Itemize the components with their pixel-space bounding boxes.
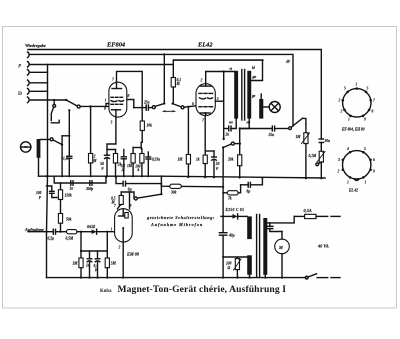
wire lower center vertical (222, 148, 224, 188)
svg-text:2n: 2n (225, 133, 230, 137)
potentiometer 100 ohm (226, 259, 241, 278)
node diode junction (80, 231, 82, 233)
tube EF804 cathode (112, 109, 121, 117)
svg-text:gn: gn (252, 75, 257, 79)
head coil (37, 139, 41, 158)
svg-text:9: 9 (373, 170, 375, 174)
contact arc 3 (28, 70, 30, 76)
resistor 100k (135, 149, 144, 176)
wire link to 1,5n branch (62, 135, 69, 137)
wire heater loop and feed (174, 60, 263, 80)
node grid-2M junction (90, 105, 92, 107)
svg-text:6: 6 (192, 102, 194, 106)
svg-text:8: 8 (128, 94, 130, 98)
capacitor 100p (36, 186, 57, 199)
wire T2 tap (223, 256, 247, 258)
wire tone line (240, 128, 272, 130)
resistor 150k (58, 183, 71, 214)
svg-text:4: 4 (346, 147, 349, 151)
svg-text:9: 9 (104, 107, 106, 111)
svg-text:=0,33n: =0,33n (150, 157, 160, 161)
svg-text:1k: 1k (196, 158, 200, 162)
wire cathode jog (107, 117, 116, 149)
svg-text:1: 1 (365, 181, 367, 185)
capacitor C 25n (143, 100, 152, 110)
wire V1 left vertical (47, 65, 48, 278)
diode 0A5 (87, 225, 115, 234)
svg-text:30k: 30k (170, 190, 177, 194)
svg-text:300p: 300p (85, 187, 93, 191)
svg-text:1M: 1M (73, 262, 79, 266)
wire speaker top (260, 94, 262, 99)
svg-text:2: 2 (337, 170, 340, 174)
wire T2 primary bottom (249, 275, 251, 278)
svg-text:7: 7 (202, 119, 204, 123)
resistor 10k (140, 108, 152, 149)
resistor 1M EL42 grid (178, 106, 191, 177)
node rect node (222, 215, 224, 217)
svg-text:7: 7 (112, 78, 114, 82)
svg-text:EF804: EF804 (106, 42, 125, 49)
resistor 50k (58, 214, 71, 232)
wire EM80 pin9 lead (129, 192, 131, 209)
svg-text:Ω: Ω (228, 266, 231, 270)
svg-text:7: 7 (373, 99, 375, 103)
svg-text:5: 5 (367, 87, 369, 91)
capacitor 50µ EL42 (205, 151, 219, 177)
wire ground bus (middle) (39, 176, 326, 178)
capacitor C 1,5n (61, 109, 72, 176)
svg-text:8µ: 8µ (247, 189, 251, 193)
svg-text:150k: 150k (65, 194, 72, 198)
wire grid EL42 line (184, 106, 196, 107)
resistor 5M (105, 251, 116, 278)
node screen node (239, 127, 241, 129)
node 223-bus (222, 186, 224, 188)
svg-text:EL 42: EL 42 (348, 189, 358, 193)
svg-text:3: 3 (337, 158, 340, 162)
svg-text:µ: µ (94, 268, 97, 272)
fuse 0,5A (294, 208, 340, 219)
svg-text:40µ: 40µ (228, 234, 235, 238)
svg-text:1n: 1n (86, 264, 90, 268)
tube EL42 cathode (201, 112, 211, 116)
svg-text:1M: 1M (296, 135, 302, 139)
wire pin9 stub (106, 104, 109, 107)
svg-text:2: 2 (338, 99, 341, 103)
wire coil top to switch (40, 138, 50, 140)
capacitor 300p series (85, 181, 93, 191)
transformer T1 output primary (234, 71, 238, 119)
svg-text:1M: 1M (127, 164, 133, 168)
resistor 0,1M screen (171, 60, 181, 104)
diode E250C85 (221, 214, 247, 219)
node bus dots EF row (45, 175, 149, 177)
capacitor 0,1µ lower (94, 251, 100, 278)
resistor 20k screen (227, 129, 242, 178)
wire head switch down (61, 136, 63, 176)
transformer T2 secondary (263, 218, 267, 275)
capacitor 6µ series (123, 181, 161, 191)
wire 7k drop (222, 187, 224, 193)
capacitor 50µ cathode (100, 150, 109, 177)
node bottom bus dots (80, 277, 124, 279)
svg-text:1: 1 (356, 83, 358, 87)
svg-text:7k: 7k (228, 196, 232, 200)
svg-text:5: 5 (344, 87, 346, 91)
capacitor 1n lower (86, 251, 92, 278)
wire 30k line (161, 184, 223, 187)
svg-text:sw: sw (246, 121, 251, 125)
wire coil bottom to bus (38, 158, 40, 176)
tube EM80 target electrode (119, 209, 129, 218)
tube EF804 envelope (109, 82, 127, 117)
resistor 1M lower (73, 258, 84, 278)
wire bottom bus (47, 277, 306, 279)
capacitor 2n (224, 126, 231, 136)
wire screen drop (215, 100, 223, 102)
switch S7 tone (289, 118, 303, 129)
transformer T2 primary upper (247, 216, 252, 239)
svg-text:p: p (18, 63, 22, 69)
svg-text:4V: 4V (285, 60, 291, 64)
svg-text:20k: 20k (227, 158, 234, 162)
node bus dots EL row (187, 176, 241, 179)
svg-text:5: 5 (364, 147, 366, 151)
switch S9 record/play (222, 142, 241, 149)
contact arc 4 (28, 80, 30, 86)
wire second bus left (54, 176, 106, 183)
svg-text:D: D (18, 91, 22, 97)
svg-text:25n: 25n (268, 133, 275, 137)
contact arc 1 (28, 52, 30, 58)
switch S1 input selector (65, 99, 80, 108)
svg-text:0A5E: 0A5E (87, 225, 96, 229)
capacitor 8µ series (241, 178, 263, 194)
wire EM80 pin7 lead (118, 206, 120, 209)
svg-text:µ: µ (215, 166, 218, 170)
tube EF804 grids (111, 97, 124, 104)
resistor 2k cathode (113, 150, 121, 177)
wire EM80 top link (121, 192, 134, 199)
tube EF804 anode (112, 82, 122, 88)
svg-text:2: 2 (200, 79, 203, 83)
contact arc 2 (28, 62, 30, 68)
svg-text:1: 1 (348, 118, 350, 122)
svg-text:Magnet-Ton-Gerät chérie, Ausfü: Magnet-Ton-Gerät chérie, Ausführung I (118, 284, 287, 295)
wire motor loop (265, 216, 294, 223)
svg-text:1: 1 (105, 99, 107, 103)
tube EM80 envelope (115, 209, 133, 242)
tube EM80 cathode (122, 227, 124, 242)
wire row link (133, 147, 141, 149)
wire rail3 heater (30, 64, 173, 66)
svg-text:ge: ge (251, 94, 256, 98)
capacitor 0,33n (146, 152, 160, 176)
svg-text:25n: 25n (143, 100, 150, 104)
wire from arc5 to V1 (31, 90, 48, 92)
capacitor 30n (319, 139, 330, 143)
svg-text:1: 1 (347, 181, 349, 185)
wire rail2 (30, 54, 293, 126)
svg-text:ws: ws (229, 121, 233, 125)
node bus-161 (160, 175, 162, 177)
svg-text:M: M (278, 245, 283, 250)
potentiometer 0,1M (309, 146, 326, 178)
svg-text:EL42: EL42 (197, 42, 213, 49)
wire lower link (81, 250, 107, 252)
capacitor 25n tone (268, 126, 289, 137)
socket EF804/EH80 (338, 83, 376, 132)
transformer T1 secondary (247, 71, 251, 119)
contact arc 6 (28, 97, 30, 103)
svg-text:6µ: 6µ (128, 188, 132, 192)
svg-text:40 VA: 40 VA (317, 244, 329, 249)
lamp (263, 102, 280, 113)
wire pin8 anode lead (127, 100, 134, 108)
svg-text:0,5A: 0,5A (304, 208, 312, 213)
svg-text:Kuba: Kuba (100, 289, 112, 294)
wire rail1 (B+ top) (28, 50, 321, 140)
coupling arrow (163, 110, 176, 112)
tube EL42 envelope (196, 84, 215, 116)
svg-text:50k: 50k (66, 218, 72, 222)
wire rectifier drop (222, 193, 224, 217)
wire from arc3 to V1 (31, 71, 48, 73)
wire from arc6 to switch S1 (31, 99, 67, 101)
switch S6 EM80 (134, 176, 162, 200)
svg-text:=1,5n: =1,5n (61, 157, 70, 161)
node 262-bus (261, 177, 263, 179)
capacitor 0,1µ (121, 150, 127, 177)
wire Aufnahme line (28, 231, 52, 233)
node anode-junction (141, 107, 143, 109)
wire pin7 top lead (117, 71, 143, 107)
svg-text:5: 5 (217, 97, 219, 101)
wire EF804 grid line (80, 105, 109, 107)
svg-text:0,5M: 0,5M (66, 236, 74, 240)
svg-text:7: 7 (114, 204, 116, 208)
wire 5M to grid (106, 232, 108, 251)
tube EL42 anode (200, 84, 212, 86)
svg-text:9: 9 (364, 118, 366, 122)
svg-text:µ: µ (121, 168, 124, 172)
svg-text:µ: µ (101, 166, 104, 170)
wire EL42 anode lead (206, 72, 235, 84)
wire switch to pot (303, 118, 306, 124)
svg-text:gezeichnete Schalterstellung:: gezeichnete Schalterstellung: (146, 215, 215, 220)
resistor 0,5M EM80 (111, 192, 124, 206)
wire sw lead (240, 119, 250, 129)
switch S3 head switch (50, 138, 63, 146)
capacitor 1n series (70, 181, 74, 191)
svg-text:0,1M: 0,1M (309, 154, 317, 158)
wire from arc4 to V1 (31, 82, 48, 84)
wire EM80 bottom lead (122, 242, 124, 278)
svg-text:p: p (38, 195, 41, 199)
svg-text:3: 3 (110, 121, 113, 125)
node 150k-50k tap (59, 231, 61, 233)
node right bus dots (305, 177, 323, 179)
resistor 30k (170, 184, 182, 194)
wire anode to 25n (134, 107, 146, 109)
svg-text:1n: 1n (70, 187, 74, 191)
switch S8 mains (305, 274, 340, 279)
wire center vertical (223, 72, 225, 140)
transformer T2 primary lower (247, 255, 252, 274)
motor M (275, 232, 290, 278)
resistor 0,5M horizontal (66, 230, 92, 241)
capacitor 0,2µ series (48, 229, 67, 240)
capacitor motor (267, 223, 282, 232)
socket EL42 (337, 147, 376, 193)
svg-text:EF 804, EH 80: EF 804, EH 80 (341, 128, 365, 132)
switch S4 playback/record (152, 54, 165, 108)
node 40u bus (222, 277, 224, 279)
svg-text:k: k (138, 168, 140, 172)
transformer T2 core (257, 215, 260, 277)
svg-text:8: 8 (372, 110, 374, 114)
wire second bus right segment (116, 177, 123, 184)
svg-text:E250 C 85: E250 C 85 (225, 208, 245, 212)
node aufnahme-V1 (45, 231, 47, 233)
svg-text:bl: bl (252, 66, 255, 70)
potentiometer 1M volume (296, 124, 310, 178)
node rail2-junction (163, 53, 165, 55)
wire rail1 right drop lower (320, 143, 322, 147)
transformer T1 core (242, 70, 245, 121)
transformer T1 output winding (259, 99, 263, 119)
tape head symbol (21, 142, 32, 152)
wire ws lead (231, 119, 236, 129)
resistor 2M grid leak (89, 106, 98, 176)
svg-text:EM 80: EM 80 (126, 252, 140, 257)
resistor 1M (127, 148, 135, 177)
switch S5 second pole (172, 103, 185, 109)
contact arc 5 (28, 89, 30, 95)
node anode line junction (223, 70, 225, 72)
resistor 1k cathode EL42 (196, 116, 207, 178)
svg-text:0,2µ: 0,2µ (48, 237, 55, 241)
capacitor 40µ (219, 216, 234, 277)
wire lower grid network (80, 232, 82, 258)
svg-text:Wiedergabe: Wiedergabe (25, 43, 46, 48)
svg-text:Aufnahme Mikrofon: Aufnahme Mikrofon (150, 222, 203, 227)
svg-text:1: 1 (111, 228, 113, 232)
svg-text:2: 2 (340, 110, 343, 114)
svg-text:2: 2 (118, 246, 121, 250)
svg-text:30n: 30n (324, 139, 331, 143)
tube EL42 grids (199, 93, 213, 106)
resistor 7k (223, 185, 241, 201)
svg-text:10k: 10k (147, 124, 153, 128)
svg-text:5M: 5M (111, 262, 117, 266)
switch S2 lower wafer (51, 99, 59, 123)
svg-text:1M: 1M (178, 158, 184, 162)
wire screen feed (173, 59, 263, 61)
svg-text:6: 6 (373, 158, 375, 162)
